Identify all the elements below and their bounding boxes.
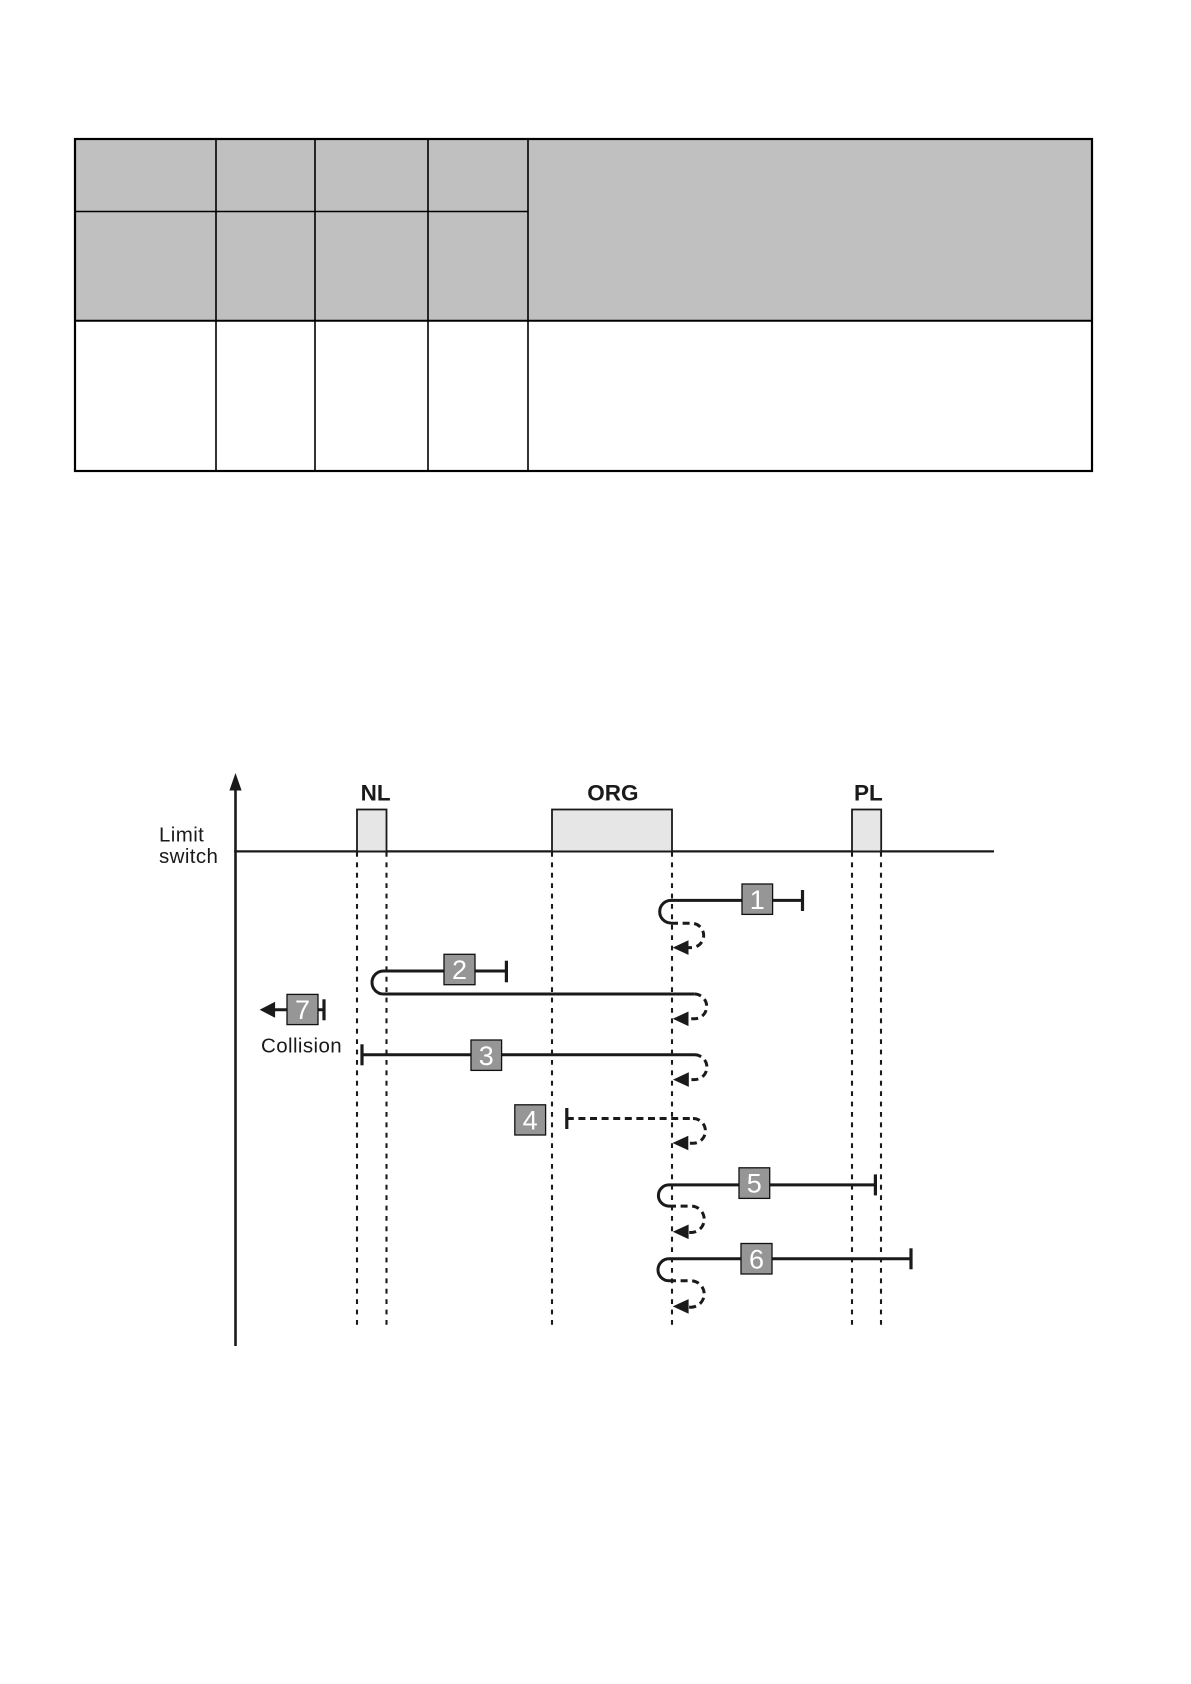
- svg-text:4: 4: [523, 1106, 538, 1136]
- svg-text:7: 7: [295, 995, 310, 1025]
- svg-text:6: 6: [749, 1244, 764, 1274]
- svg-text:2: 2: [452, 955, 467, 985]
- svg-text:NL: NL: [361, 781, 391, 806]
- svg-text:Collision: Collision: [261, 1035, 342, 1058]
- svg-text:switch: switch: [159, 845, 218, 868]
- svg-text:1: 1: [750, 885, 765, 915]
- svg-text:Limit: Limit: [159, 824, 204, 847]
- svg-text:3: 3: [479, 1041, 494, 1071]
- svg-text:ORG: ORG: [587, 780, 638, 805]
- svg-text:PL: PL: [854, 780, 883, 805]
- svg-text:5: 5: [747, 1169, 762, 1199]
